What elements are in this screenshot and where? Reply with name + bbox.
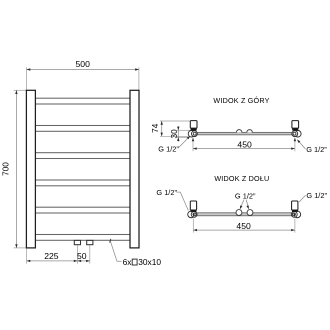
dim 30 extension line top [177, 129, 190, 131]
dim 74 arrow bottom [161, 133, 163, 137]
svg-text:74: 74 [151, 123, 160, 133]
G 1/2 bottom-middle leader left arrow [239, 205, 243, 209]
dim 50 arrow left [78, 260, 82, 262]
dim 225 dimension line [27, 260, 78, 262]
top view bar [197, 132, 292, 135]
top view left fitting circles [188, 130, 195, 137]
dim 450 bottom extension line right [294, 219, 296, 233]
dim 700 arrow bottom [15, 244, 17, 248]
bottom stub 1 [74, 240, 80, 244]
dim 500 dimension line [27, 69, 139, 71]
top view left fitting body [190, 121, 197, 129]
G 1/2 bottom-middle leader left [240, 200, 244, 209]
bottom view left fitting nut band [191, 210, 197, 212]
svg-text:G 1/2”: G 1/2” [156, 188, 177, 197]
rung 1 [35, 98, 130, 104]
bottom view right fitting nut band [292, 210, 298, 212]
dim 450 top dimension line [193, 148, 295, 150]
dim 74 dimension line [161, 121, 163, 136]
dim 50 dimension line [78, 260, 90, 262]
bottom stub 2 [87, 240, 93, 244]
dim 30 dimension line [177, 126, 179, 141]
bottom view left fitting circles [188, 211, 195, 218]
bottom view left fitting body [190, 201, 196, 210]
svg-text:G 1/2”: G 1/2” [306, 191, 327, 200]
G 1/2 top-right leader arrow [296, 139, 300, 143]
dim 700 extension line bottom [14, 247, 27, 249]
svg-text:450: 450 [236, 221, 251, 231]
dim 74 extension line top [160, 120, 190, 122]
top view right fitting body [292, 121, 299, 129]
svg-text:G 1/2”: G 1/2” [158, 144, 179, 153]
svg-text:30x10: 30x10 [138, 257, 161, 267]
dim 450 top arrow right [291, 147, 295, 149]
dim 225 arrow left [27, 260, 31, 262]
G 1/2 top-left leader arrow [187, 135, 191, 139]
dim 450 bottom dimension line [193, 229, 295, 231]
leader 6x 30x10 [110, 241, 121, 262]
G 1/2 bottom-right leader [299, 195, 306, 202]
dim 450 top extension line right [294, 138, 296, 151]
rung 6 [35, 235, 130, 241]
dim 74 arrow top [161, 121, 163, 125]
dim 450 top arrow mark at right circle bottom [294, 138, 296, 142]
rung 2 [35, 126, 130, 132]
bottom view right fitting body [292, 201, 298, 210]
svg-text:6x: 6x [123, 257, 133, 267]
dim 74 extension line bottom [160, 135, 188, 137]
dim 450 bottom arrow left [193, 229, 197, 231]
dim 500 extension line right [138, 67, 140, 90]
dim 450 bottom arrow mark at left circle bottom [192, 214, 194, 218]
bottom view stub circle 1 [236, 210, 242, 216]
dim 30 arrow bottom outside [177, 137, 179, 141]
dim 225 extension line left [26, 249, 28, 264]
dim 700 extension line top [14, 89, 27, 91]
dim 225 arrow right [74, 260, 78, 262]
right collector tube [130, 90, 139, 248]
rung 4 [35, 180, 130, 186]
dim 30 extension line bottom [177, 136, 190, 138]
dim 450 bottom extension line left [192, 219, 194, 233]
left collector tube [26, 90, 35, 248]
dim 500 extension line left [26, 67, 28, 90]
dim 450 top arrow mark at left circle bottom [192, 138, 194, 142]
top view left fitting nut band [191, 128, 197, 130]
top view stub arc 2 [247, 130, 253, 133]
dim 450 top extension line left [192, 138, 194, 151]
svg-text:30: 30 [170, 129, 179, 139]
top view right fitting circles [295, 130, 302, 137]
G 1/2 top-right leader [298, 140, 306, 149]
svg-text:700: 700 [1, 162, 10, 176]
dim 50 extension line stub2 [89, 245, 91, 263]
top view right fitting nut band [292, 128, 298, 130]
svg-text:WIDOK Z GÓRY: WIDOK Z GÓRY [213, 96, 269, 105]
dim 50 arrow right [86, 260, 90, 262]
svg-text:50: 50 [77, 251, 87, 261]
bottom view stub circle 2 [247, 210, 253, 216]
svg-text:500: 500 [76, 59, 91, 69]
leader tick [110, 239, 111, 243]
svg-text:WIDOK Z DOŁU: WIDOK Z DOŁU [214, 174, 269, 183]
svg-text:G 1/2”: G 1/2” [235, 191, 256, 200]
dim 225/50 extension line stub1 [77, 245, 79, 263]
bottom view bar [197, 213, 293, 216]
dim 450 top arrow left [193, 147, 197, 149]
svg-text:G 1/2”: G 1/2” [306, 145, 327, 154]
dim 700 dimension line [15, 90, 17, 248]
svg-text:450: 450 [237, 139, 252, 149]
svg-text:225: 225 [44, 251, 59, 261]
G 1/2 bottom-left leader [177, 192, 189, 210]
dim 700 arrow top [15, 90, 17, 94]
label square symbol [132, 259, 137, 265]
rung 5 [35, 207, 130, 213]
rung 3 [35, 153, 130, 159]
dim 500 arrow right [135, 68, 139, 70]
top view stub arc 1 [236, 130, 242, 133]
G 1/2 top-left leader [179, 137, 190, 148]
G 1/2 bottom-middle leader right [246, 200, 248, 209]
dim 30 arrow top outside [177, 127, 179, 131]
G 1/2 bottom-middle leader right arrow [246, 205, 250, 209]
bottom view right fitting circles [294, 211, 301, 218]
dim 500 arrow left [27, 68, 31, 70]
dim 450 bottom arrow right [291, 229, 295, 231]
dim 450 bottom arrow mark at right circle bottom [293, 214, 295, 218]
